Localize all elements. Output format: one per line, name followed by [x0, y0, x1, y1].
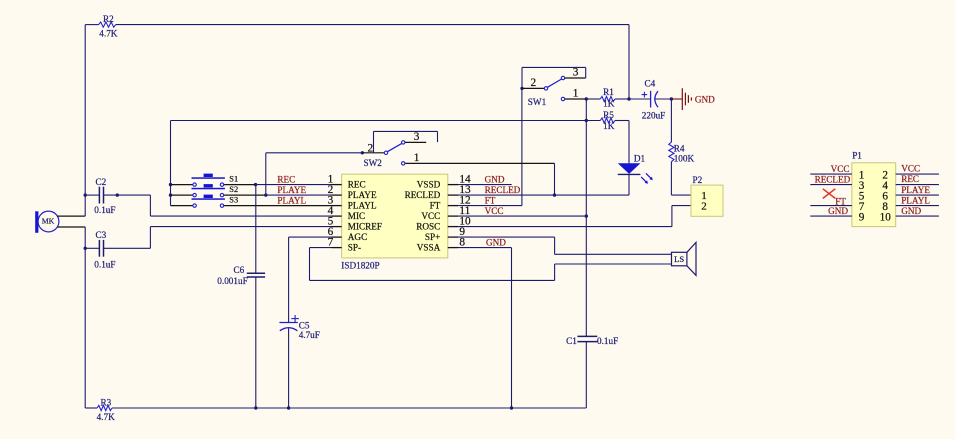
wire: top rail to R2 — [85, 24, 99, 26]
node: R1 left junction — [585, 97, 588, 100]
wire: S3 stubs — [171, 205, 193, 207]
svg-text:PLAYE: PLAYE — [348, 190, 377, 200]
svg-text:4.7K: 4.7K — [97, 412, 115, 422]
node: S2 output junction — [264, 193, 267, 196]
wire: FT net pin12 — [458, 205, 522, 207]
svg-text:C6: C6 — [234, 265, 245, 275]
svg-text:P1: P1 — [852, 151, 862, 161]
svg-text:FT: FT — [485, 195, 496, 205]
svg-text:D1: D1 — [634, 153, 646, 163]
pin 7 stub — [332, 247, 342, 249]
svg-text:3: 3 — [573, 67, 579, 79]
speaker LS — [672, 242, 697, 275]
svg-text:R2: R2 — [103, 14, 114, 24]
wire: SW2 bracket — [373, 131, 375, 152]
switch S2 — [192, 184, 225, 197]
svg-text:PLAYE: PLAYE — [901, 185, 930, 195]
microphone MK — [35, 211, 59, 233]
svg-text:C2: C2 — [96, 177, 107, 187]
wire: top rail drop to R1/C4 node — [628, 25, 630, 99]
svg-text:R5: R5 — [603, 110, 614, 120]
node: RECLED junction — [553, 193, 556, 196]
pin 11 stub — [448, 215, 458, 217]
wire: P1 pin1 — [810, 173, 852, 175]
svg-text:PLAYL: PLAYL — [901, 196, 930, 206]
svg-text:GND: GND — [485, 174, 505, 184]
wire: ROSC pin10 to P2 — [458, 226, 672, 228]
wire: MK bottom stub — [57, 226, 85, 228]
svg-text:LS: LS — [674, 254, 684, 264]
resistor R3 — [97, 405, 112, 410]
node: VSSA rail junction — [510, 406, 513, 409]
svg-text:SP-: SP- — [348, 242, 361, 252]
svg-text:FT: FT — [430, 200, 441, 210]
wire: LED cathode to RECLED — [628, 174, 630, 195]
pin 2 stub — [332, 194, 342, 196]
node: S2 feed junction — [169, 193, 172, 196]
svg-text:VCC: VCC — [421, 211, 440, 221]
node: S1 feed junction — [169, 183, 172, 186]
svg-text:0.001uF: 0.001uF — [217, 276, 247, 286]
capacitor C2 — [85, 187, 150, 204]
svg-text:C1: C1 — [566, 336, 577, 346]
connector P2 — [691, 185, 723, 216]
wire: P1 pin9 — [810, 215, 852, 217]
wire: SP- pin7 loop to LS — [310, 247, 332, 249]
ground symbol GND — [671, 88, 715, 110]
wire: SW1 bracket — [521, 67, 523, 88]
svg-text:1K: 1K — [603, 98, 615, 108]
resistor R4 — [669, 99, 674, 195]
svg-text:S2: S2 — [229, 185, 238, 194]
wire: S2 node up to SW2 — [265, 153, 267, 195]
node: C5 rail junction — [287, 406, 290, 409]
svg-text:1: 1 — [573, 88, 579, 100]
svg-text:PLAYL: PLAYL — [348, 200, 377, 210]
svg-text:VCC: VCC — [901, 163, 920, 173]
svg-text:MIC: MIC — [348, 211, 365, 221]
svg-text:ISD1820P: ISD1820P — [341, 260, 379, 270]
pin 14 stub — [448, 184, 458, 186]
svg-text:4.7uF: 4.7uF — [299, 330, 320, 340]
resistor R2 — [99, 22, 116, 27]
svg-text:100K: 100K — [674, 154, 695, 164]
svg-text:VSSD: VSSD — [417, 179, 441, 189]
svg-text:4.7K: 4.7K — [99, 28, 117, 38]
svg-text:VCC: VCC — [485, 206, 504, 216]
node: C6 rail junction — [254, 406, 257, 409]
svg-text:ROSC: ROSC — [416, 221, 440, 231]
svg-text:1K: 1K — [603, 121, 615, 131]
wire: MK top stub — [57, 215, 85, 217]
switch SW1 — [522, 76, 586, 100]
svg-text:PLAYL: PLAYL — [277, 196, 306, 206]
wire: P1 pin7 — [810, 205, 852, 207]
svg-text:MICREF: MICREF — [348, 221, 382, 231]
pin 8 stub — [448, 247, 458, 249]
wire: R1 row — [586, 98, 600, 100]
wire: left vertical (mic bias top) — [84, 25, 86, 217]
svg-text:R3: R3 — [101, 397, 112, 407]
svg-text:RECLED: RECLED — [405, 190, 441, 200]
svg-text:S3: S3 — [229, 196, 238, 205]
pin 1 stub — [332, 184, 342, 186]
switch S1 — [192, 174, 225, 187]
capacitor C5 (polarized) — [279, 315, 299, 331]
svg-text:GND: GND — [486, 237, 506, 247]
wire: S2 to chip pin 2 — [266, 194, 332, 196]
wire: RECLED net pin13 to LED — [458, 194, 629, 196]
wire: S1 to chip pin 1 — [256, 184, 332, 186]
svg-text:S1: S1 — [229, 175, 238, 184]
svg-text:GND: GND — [828, 206, 848, 216]
svg-text:C5: C5 — [299, 320, 310, 330]
pin 3 stub — [332, 205, 342, 207]
capacitor C1 — [577, 336, 597, 341]
wire: S2 stubs — [171, 194, 193, 196]
capacitor C6 — [247, 273, 265, 277]
wire: SW2 pin1 down to RECLED — [554, 163, 556, 195]
svg-text:REC: REC — [277, 175, 295, 185]
op-amp U1 ISD1820P body — [342, 174, 448, 258]
pin 13 stub — [448, 194, 458, 196]
svg-text:SW2: SW2 — [364, 158, 383, 168]
svg-text:1: 1 — [414, 152, 420, 164]
wire: bottom rail left — [85, 407, 97, 409]
node: SW1 common junction — [520, 87, 523, 90]
svg-text:R4: R4 — [674, 143, 685, 153]
wire: left vertical (mic bias bottom) — [84, 227, 86, 408]
wire: VSSA pin8 to rail — [458, 247, 512, 249]
svg-text:7: 7 — [328, 237, 334, 249]
wire: VCC vertical — [585, 99, 587, 336]
svg-text:C3: C3 — [96, 230, 107, 240]
svg-text:9: 9 — [859, 212, 865, 224]
wire: C5 to ground rail — [288, 328, 290, 408]
node: SW2 common junction — [361, 151, 364, 154]
wire: P1 pin6 — [896, 194, 939, 196]
wire: top rail — [116, 24, 629, 26]
svg-text:REC: REC — [348, 179, 366, 189]
no-ERC marker X — [823, 189, 836, 199]
node: C2 left junction — [84, 193, 87, 196]
capacitor C3 — [85, 240, 150, 257]
resistor R1 — [600, 96, 615, 101]
node: C3 left junction — [84, 247, 87, 250]
svg-text:SW1: SW1 — [528, 97, 547, 107]
svg-text:PLAYE: PLAYE — [277, 185, 306, 195]
svg-text:GND: GND — [695, 95, 715, 105]
node: R1/C4 junction — [627, 97, 630, 100]
pin 5 stub — [332, 226, 342, 228]
svg-text:RECLED: RECLED — [815, 174, 851, 184]
wire: P1 pin10 — [896, 215, 939, 217]
pin 6 stub — [332, 236, 342, 238]
pin 4 stub — [332, 215, 342, 217]
wire: C2 to MIC pin — [149, 195, 151, 216]
wire: C3 to MICREF pin — [149, 227, 151, 249]
svg-text:C4: C4 — [645, 79, 656, 89]
LED D1 — [618, 163, 653, 184]
svg-text:220uF: 220uF — [642, 111, 666, 121]
node: C4/GND junction — [670, 97, 673, 100]
node: S1 output junction — [254, 183, 257, 186]
svg-text:P2: P2 — [693, 175, 703, 185]
wire: P1 pin4 — [896, 184, 939, 186]
svg-text:8: 8 — [459, 237, 465, 249]
wire: R4 to P2 pin1 — [671, 194, 691, 196]
wire: R5 row horizontal — [171, 120, 601, 122]
pin 9 stub — [448, 236, 458, 238]
svg-text:RECLED: RECLED — [485, 185, 521, 195]
svg-text:0.1uF: 0.1uF — [94, 260, 115, 270]
svg-text:REC: REC — [901, 174, 919, 184]
svg-text:R1: R1 — [603, 87, 614, 97]
wire: C1 to rail corner — [585, 342, 587, 408]
switch S3 — [192, 195, 225, 208]
wire: P1 pin3 — [810, 184, 852, 186]
svg-text:MK: MK — [42, 216, 55, 225]
node: VCC junction — [585, 214, 588, 217]
svg-text:0.1uF: 0.1uF — [94, 205, 115, 215]
wire: C6 to ground rail — [255, 277, 257, 408]
wire: P1 pin2 — [896, 173, 939, 175]
wire: S1 stubs — [171, 184, 193, 186]
connector P1 — [852, 163, 896, 227]
wire: SP+ pin9 to LS — [458, 236, 555, 238]
wire: R5 to LED — [615, 120, 629, 122]
pin 10 stub — [448, 226, 458, 228]
wire: VSSD pin14 to GND net — [458, 184, 512, 186]
node: R5 left junction — [585, 119, 588, 122]
wire: P1 pin8 — [896, 205, 939, 207]
svg-text:VSSA: VSSA — [417, 242, 441, 252]
node: C2 right junction — [116, 193, 119, 196]
svg-text:10: 10 — [880, 212, 892, 224]
capacitor C4 (polarized) — [629, 91, 671, 108]
svg-text:VCC: VCC — [831, 164, 850, 174]
resistor R5 — [600, 118, 615, 123]
svg-text:GND: GND — [901, 206, 921, 216]
wire: S1 node down to C6 — [255, 185, 257, 274]
wire: bottom ground rail — [112, 407, 586, 409]
svg-text:SP+: SP+ — [425, 232, 440, 242]
svg-text:0.1uF: 0.1uF — [597, 336, 618, 346]
wire: AGC pin to C5 — [289, 236, 332, 238]
svg-text:2: 2 — [531, 77, 537, 89]
svg-text:3: 3 — [414, 131, 420, 143]
svg-text:2: 2 — [367, 142, 373, 154]
svg-text:AGC: AGC — [348, 232, 367, 242]
pin 12 stub — [448, 205, 458, 207]
switch SW2 — [362, 141, 554, 165]
svg-text:2: 2 — [701, 200, 707, 212]
wire: VCC net pin11 — [458, 215, 586, 217]
wire: switch feed from R5 row — [170, 121, 172, 206]
